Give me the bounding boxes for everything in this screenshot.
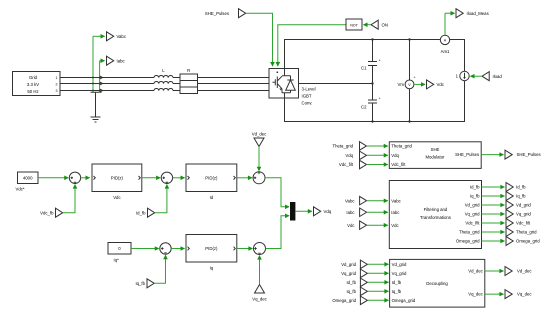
svg-text:Theta_grid: Theta_grid [516, 230, 537, 235]
svg-text:Iq: Iq [210, 266, 214, 271]
svg-text:Vabc: Vabc [117, 34, 127, 39]
svg-text:+: + [379, 97, 381, 101]
svg-text:Vd_dec: Vd_dec [517, 269, 532, 274]
svg-text:Vdc_filt: Vdc_filt [339, 162, 354, 167]
svg-text:Vq_dec: Vq_dec [517, 292, 532, 297]
svg-text:Iload_Meas: Iload_Meas [467, 11, 489, 16]
svg-text:Iq_fb: Iq_fb [346, 289, 356, 294]
svg-text:Vdc_fb: Vdc_fb [40, 210, 54, 215]
svg-text:SHE_Pulses: SHE_Pulses [205, 11, 229, 16]
svg-text:Id: Id [210, 195, 214, 200]
svg-text:Vd_grid: Vd_grid [392, 262, 407, 267]
svg-text:Omega_grid: Omega_grid [456, 239, 480, 244]
svg-text:Iabc: Iabc [391, 210, 400, 215]
svg-text:Id_fb: Id_fb [136, 210, 146, 215]
svg-text:Vabc: Vabc [345, 198, 355, 203]
svg-text:Vdq: Vdq [324, 209, 332, 214]
svg-text:PID(z): PID(z) [111, 175, 124, 180]
svg-text:Vq_grid: Vq_grid [465, 212, 480, 217]
svg-text:Vq_dec: Vq_dec [252, 297, 267, 302]
svg-text:SHE_Pulses: SHE_Pulses [455, 152, 479, 157]
svg-text:Vdq: Vdq [345, 153, 353, 158]
svg-text:Theta_grid: Theta_grid [459, 230, 480, 235]
svg-text:Vq_grid: Vq_grid [392, 271, 407, 276]
svg-text:Vd_dec: Vd_dec [252, 132, 267, 137]
svg-text:3-Level: 3-Level [302, 87, 316, 92]
svg-text:Iq_fb: Iq_fb [135, 281, 145, 286]
svg-text:Conv.: Conv. [302, 101, 313, 106]
svg-text:Vd_grid: Vd_grid [341, 262, 356, 267]
svg-text:Vm: Vm [398, 82, 405, 87]
svg-text:Iq_fb: Iq_fb [392, 289, 402, 294]
svg-text:3.3 kV: 3.3 kV [27, 82, 39, 87]
svg-text:Iabc: Iabc [346, 210, 355, 215]
svg-text:R: R [187, 68, 190, 73]
svg-text:Iabc: Iabc [117, 59, 126, 64]
svg-text:Theta_grid: Theta_grid [332, 144, 353, 149]
svg-text:Id_fb: Id_fb [392, 280, 402, 285]
svg-text:Vabc: Vabc [391, 198, 401, 203]
svg-text:1: 1 [56, 76, 58, 80]
svg-text:Omega_grid: Omega_grid [516, 239, 540, 244]
svg-text:Id_fb: Id_fb [346, 280, 356, 285]
svg-text:2: 2 [56, 83, 58, 87]
svg-text:Vdc_filt: Vdc_filt [516, 221, 531, 226]
svg-text:50 Hz: 50 Hz [27, 89, 38, 94]
svg-text:Modulator: Modulator [425, 154, 445, 159]
svg-text:Am1: Am1 [441, 49, 450, 54]
svg-text:SHE_Pulses: SHE_Pulses [517, 152, 541, 157]
svg-text:Iload: Iload [493, 74, 503, 79]
svg-text:Vdc: Vdc [391, 223, 399, 228]
svg-text:Omega_grid: Omega_grid [392, 298, 416, 303]
svg-text:+: + [414, 76, 416, 80]
svg-text:Vq_grid: Vq_grid [516, 212, 531, 217]
svg-text:Transformations: Transformations [420, 215, 451, 220]
svg-text:PID(z): PID(z) [205, 175, 218, 180]
svg-text:Vdc: Vdc [113, 195, 121, 200]
svg-text:Iq_fb: Iq_fb [470, 194, 480, 199]
svg-text:Vq_grid: Vq_grid [341, 271, 356, 276]
svg-text:Grid: Grid [29, 75, 38, 80]
svg-text:Vd_grid: Vd_grid [465, 203, 480, 208]
svg-text:IGBT: IGBT [302, 94, 312, 99]
svg-text:Filtering and: Filtering and [424, 207, 448, 212]
svg-text:NOT: NOT [350, 24, 358, 28]
svg-text:Omega_grid: Omega_grid [332, 298, 356, 303]
svg-text:Iq*: Iq* [114, 258, 120, 263]
svg-text:ON: ON [382, 22, 388, 27]
svg-text:+: + [379, 59, 381, 63]
svg-text:Id_fb: Id_fb [516, 185, 526, 190]
svg-text:Vd_grid: Vd_grid [516, 203, 531, 208]
svg-text:Vdq: Vdq [391, 153, 399, 158]
svg-text:Vdc: Vdc [437, 82, 445, 87]
svg-text:SHE: SHE [431, 147, 440, 152]
svg-text:Iq_fb: Iq_fb [516, 194, 526, 199]
svg-text:PID(z): PID(z) [205, 246, 218, 251]
svg-text:Vdc: Vdc [347, 223, 355, 228]
svg-text:Vdc_filt: Vdc_filt [465, 221, 480, 226]
svg-text:C1: C1 [361, 66, 367, 71]
svg-text:Id_fb: Id_fb [470, 185, 480, 190]
svg-text:3: 3 [56, 89, 58, 93]
svg-text:Vdc*: Vdc* [16, 187, 25, 192]
svg-text:Vq_dec: Vq_dec [468, 292, 483, 297]
svg-text:Decoupling: Decoupling [426, 281, 448, 286]
svg-text:Vdc_filt: Vdc_filt [391, 162, 406, 167]
svg-text:Theta_grid: Theta_grid [391, 144, 412, 149]
svg-text:Vd_dec: Vd_dec [468, 269, 483, 274]
svg-text:C2: C2 [361, 105, 367, 110]
svg-text:4000: 4000 [23, 176, 33, 181]
